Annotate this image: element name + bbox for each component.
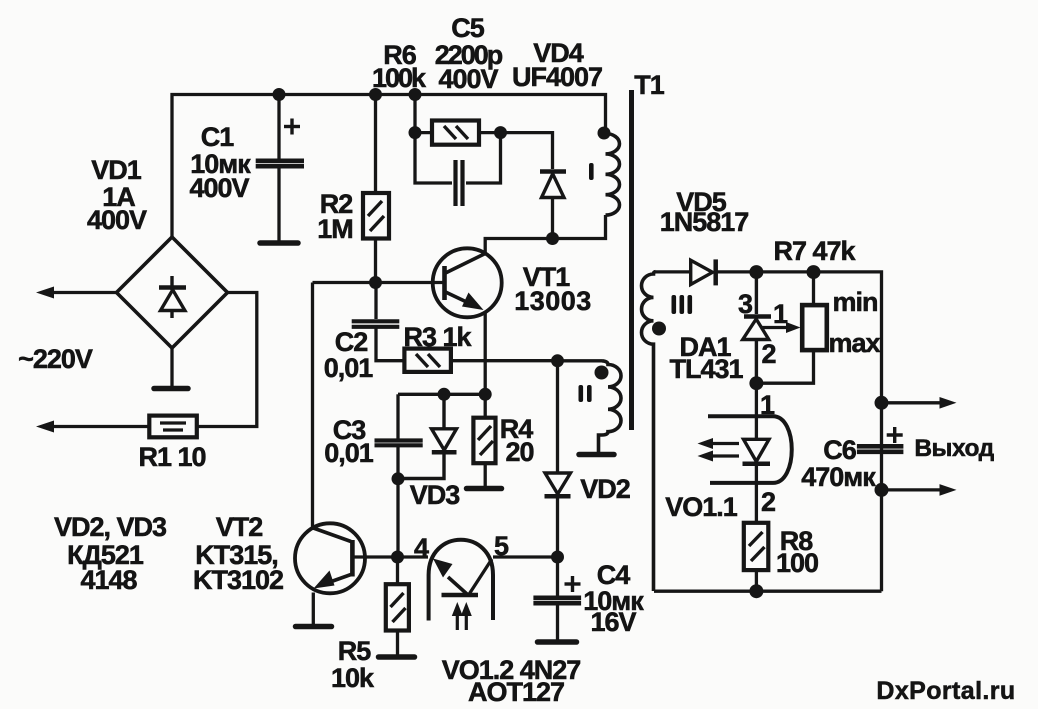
winding II start wire: [558, 359, 603, 362]
ground bar R5: [379, 654, 415, 660]
wire VD2 to C4 node: [556, 496, 559, 557]
node R4 top emitter: [479, 388, 492, 401]
VT1 base wire: [313, 281, 445, 284]
svg-text:3: 3: [738, 289, 753, 319]
node winding I top: [598, 127, 611, 140]
svg-text:VD3: VD3: [410, 480, 461, 510]
wire AC input top: [48, 291, 117, 294]
ground bar R4: [467, 486, 502, 492]
resistor R1 body: [149, 416, 197, 438]
diode VD3: [398, 394, 457, 478]
wire R1 to AC input bottom: [48, 425, 149, 428]
capacitor C3 wire bottom: [396, 447, 399, 479]
svg-text:10k: 10k: [331, 663, 375, 693]
node R8 bottom rail: [749, 584, 763, 598]
VT2 emitter line with arrow: [314, 571, 352, 589]
VT1 collector line: [446, 254, 486, 274]
arrow output minus: [940, 484, 957, 496]
diode VD2: [545, 473, 571, 496]
node top rail C1: [273, 88, 286, 101]
wire snubber drop: [413, 95, 416, 133]
wire R4 bottom: [484, 463, 487, 486]
ground bar C4: [538, 639, 577, 645]
svg-text:TL431: TL431: [669, 354, 743, 384]
wire snubber to VD4: [501, 133, 553, 169]
winding II: [599, 361, 622, 453]
wire C5 right branch: [466, 133, 501, 183]
node winding III phase dot: [652, 322, 666, 336]
R2 hatch: [368, 201, 384, 231]
capacitor C3 plates: [375, 441, 423, 446]
node VT1 base R2 C2: [369, 276, 382, 289]
arrow AC input bottom: [36, 421, 54, 433]
resistor R8 body: [744, 523, 769, 570]
node snubber left: [409, 126, 422, 139]
node top rail snubber: [409, 88, 422, 101]
node R7 top: [807, 265, 821, 279]
ground bar bridge bottom: [154, 386, 188, 392]
wire R3 right to winding II node: [451, 359, 558, 362]
plus sign C1: [284, 119, 300, 135]
capacitor C6 plates: [857, 446, 904, 452]
wire C5 left branch: [415, 133, 452, 183]
winding I label I: [589, 163, 594, 180]
node R5 top: [391, 551, 404, 564]
winding III: [642, 272, 656, 591]
svg-text:400V: 400V: [87, 205, 147, 235]
wire R7 node to right rail: [814, 272, 882, 403]
capacitor C4 plates: [533, 598, 581, 603]
wire TL431 anode to LED pin1: [755, 383, 758, 438]
node VD3 top: [438, 388, 451, 401]
svg-text:C5: C5: [451, 13, 484, 43]
VT1 emitter wire down: [484, 311, 487, 394]
svg-text:C6: C6: [823, 435, 856, 465]
LED VO1.1: [743, 439, 771, 464]
wire collector node to winding I bottom: [553, 215, 606, 239]
diode VD4: [540, 172, 566, 198]
svg-text:R3 1k: R3 1k: [403, 322, 472, 352]
emitter node bar wire: [398, 393, 485, 396]
node TL431 top: [749, 265, 763, 279]
node output minus: [875, 483, 889, 497]
node snubber right: [494, 126, 507, 139]
VO1.2 emitter line with arrow pin4: [433, 559, 468, 595]
svg-text:4148: 4148: [80, 565, 137, 595]
ground bar C1: [260, 240, 298, 246]
diode inside VD1: [159, 276, 186, 318]
wire output plus: [882, 401, 944, 404]
resistor R2 body: [363, 193, 389, 239]
resistor R5 body: [386, 584, 409, 630]
svg-text:20: 20: [505, 437, 533, 467]
capacitor C5 plates: [456, 160, 463, 206]
wire opto pin5 to C4 node: [493, 555, 558, 558]
node R3 VD2 winding II: [551, 354, 564, 367]
capacitor C1 wire bottom: [277, 167, 280, 241]
wire bridge right to R1: [197, 293, 257, 427]
svg-text:1M: 1M: [317, 214, 353, 244]
svg-text:~220V: ~220V: [18, 344, 93, 374]
VO1.2 base bar: [442, 593, 479, 598]
svg-text:VD2: VD2: [580, 474, 630, 504]
node VD4 bottom: [546, 232, 559, 245]
svg-text:2: 2: [761, 339, 775, 369]
winding I: [606, 134, 620, 216]
node top rail R2: [369, 88, 382, 101]
resistor R6 body: [432, 121, 479, 145]
VT2 emitter wire down: [312, 593, 315, 625]
svg-text:R5: R5: [338, 636, 371, 666]
node output plus: [875, 396, 889, 410]
svg-text:16V: 16V: [590, 607, 636, 637]
node C3 VD3 bottom: [392, 472, 405, 485]
potentiometer R7 body: [802, 305, 827, 350]
wire LED pin2 to R8: [755, 464, 758, 523]
node VD2 C4 pin5: [551, 551, 564, 564]
R5 hatch: [391, 593, 406, 622]
R3 hatch: [416, 354, 440, 367]
transistor VT2 circle: [295, 523, 365, 593]
svg-text:470мк: 470мк: [801, 462, 876, 492]
svg-text:5: 5: [494, 531, 509, 561]
capacitor C1 wire top: [277, 95, 280, 160]
capacitor C4 wire bottom: [556, 605, 559, 641]
svg-text:VO1.1: VO1.1: [665, 492, 738, 522]
wire bottom rail: [654, 590, 882, 593]
resistor R3 body: [404, 349, 451, 372]
svg-text:1: 1: [773, 299, 788, 329]
VO1.1 light arrows: [698, 438, 740, 462]
svg-text:UF4007: UF4007: [512, 62, 602, 92]
svg-text:R1 10: R1 10: [138, 442, 205, 472]
VT2 base bar: [350, 540, 355, 577]
ground bar VT2 emitter: [296, 624, 332, 630]
capacitor C3 wire top: [396, 394, 399, 438]
capacitor C2 wire top: [374, 283, 377, 320]
svg-text:2: 2: [761, 487, 775, 517]
svg-text:R7 47k: R7 47k: [773, 236, 856, 266]
optocoupler VO1.2 envelope: [429, 540, 493, 621]
wire bridge bottom lead: [170, 348, 173, 386]
R4 hatch: [478, 426, 493, 455]
VT2 collector wire from base node: [311, 283, 314, 529]
VT2 collector line: [313, 528, 351, 542]
winding III label III: [672, 295, 693, 314]
wire top rail from bridge to transformer: [172, 95, 606, 239]
R1 dashes: [160, 423, 186, 430]
R7 wire bottom to anode node: [756, 350, 813, 383]
R7 wire top: [812, 272, 815, 305]
diode VD5: [691, 259, 716, 285]
VO1.2 light arrows: [452, 602, 472, 630]
wire R8 bottom to rail: [755, 570, 758, 591]
wire R6 left lead: [415, 131, 432, 134]
wire R5 bottom: [396, 631, 399, 656]
wire TL431 node to R7 node: [756, 270, 813, 273]
wire VD4 to collector node: [551, 198, 554, 239]
resistor R4 wire top: [484, 394, 487, 417]
resistor R5 wire top: [396, 557, 399, 584]
optocoupler VO1.1 envelope: [708, 416, 792, 483]
VT1 emitter line with arrow: [446, 292, 484, 310]
wire R6 right lead: [479, 131, 501, 134]
svg-text:min: min: [832, 287, 877, 317]
winding II label II: [579, 385, 592, 402]
resistor R2 wire top: [374, 95, 377, 194]
diode VD2 wire top: [556, 361, 559, 473]
svg-text:1: 1: [760, 390, 775, 420]
svg-text:100k: 100k: [372, 63, 427, 93]
svg-text:400V: 400V: [438, 64, 498, 94]
wire output minus: [882, 488, 944, 491]
svg-text:max: max: [828, 328, 880, 358]
svg-text:0,01: 0,01: [324, 438, 374, 468]
regulator DA1 TL431: [743, 272, 771, 383]
plus sign C6: [887, 427, 903, 443]
VT1 base bar: [442, 266, 447, 300]
wire C2 bottom to R3: [376, 328, 404, 361]
transistor VT1 circle: [433, 248, 502, 317]
capacitor C1 plates: [256, 161, 304, 166]
svg-text:100: 100: [776, 548, 818, 578]
svg-text:C1: C1: [201, 122, 234, 152]
svg-text:VT2: VT2: [216, 512, 263, 542]
wire collector node to VT1 collector: [485, 239, 552, 255]
svg-text:4: 4: [414, 533, 429, 563]
capacitor C4 wire top: [556, 557, 559, 596]
R6 hatch: [444, 126, 468, 139]
wire VT2 base to opto pin4: [354, 555, 428, 558]
node winding II phase dot: [595, 366, 609, 380]
node TL431 anode: [749, 376, 763, 390]
svg-text:400V: 400V: [189, 173, 249, 203]
plus sign C4: [565, 576, 581, 592]
svg-text:T1: T1: [634, 70, 664, 100]
svg-text:0,01: 0,01: [324, 353, 374, 383]
svg-text:13003: 13003: [514, 286, 592, 316]
ground bar winding II: [579, 452, 614, 458]
DA1 ref arrow to R7 wiper: [762, 322, 801, 333]
svg-text:AOT127: AOT127: [468, 677, 564, 707]
svg-text:VD2, VD3: VD2, VD3: [54, 512, 167, 542]
wire winding III to VD5: [654, 270, 691, 273]
wire right rail lower: [880, 403, 883, 591]
arrow output plus: [940, 397, 957, 409]
svg-text:Выход: Выход: [914, 435, 994, 462]
VO1.2 collector line pin5: [469, 559, 492, 594]
bridge rectifier VD1 diamond: [117, 237, 228, 348]
arrow AC input top: [36, 287, 54, 299]
resistor R4 body: [473, 418, 495, 464]
transformer T1 core: [629, 90, 634, 430]
wire VD5 to TL431 node: [716, 270, 757, 273]
svg-text:1N5817: 1N5817: [660, 207, 749, 237]
svg-text:VD1: VD1: [91, 155, 142, 185]
R8 hatch: [749, 532, 765, 561]
svg-text:DxPortal.ru: DxPortal.ru: [876, 677, 1015, 705]
wire R2 bottom to base node: [374, 239, 377, 283]
svg-text:KT3102: KT3102: [193, 565, 283, 595]
wire sense node down: [396, 479, 399, 557]
capacitor C2 plates: [352, 321, 400, 327]
